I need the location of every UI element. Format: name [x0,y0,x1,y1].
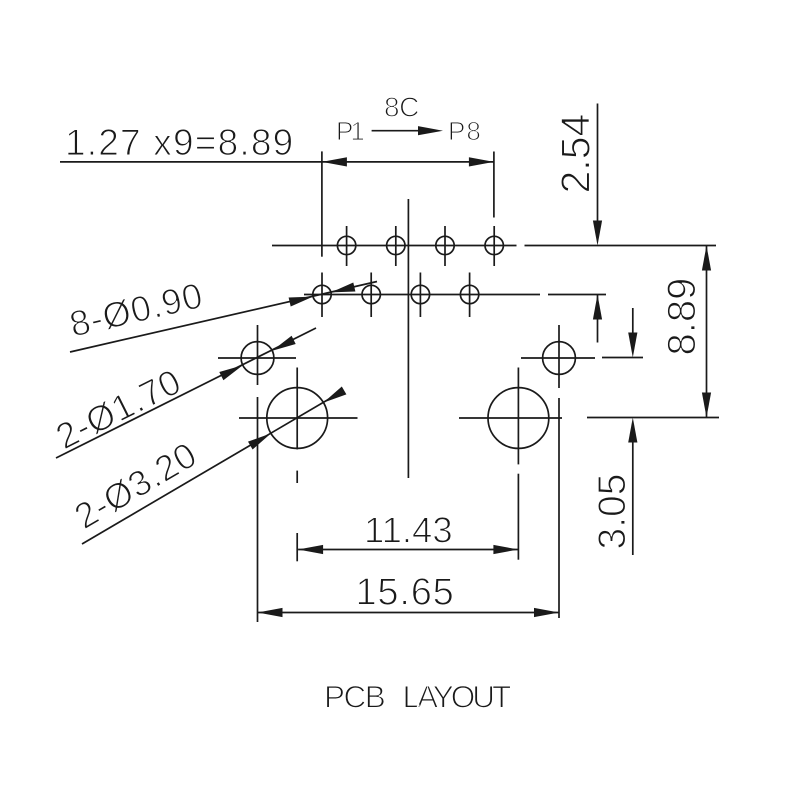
big hole right (3.20) [488,388,549,449]
pin P5 [411,285,429,303]
pin P3 [362,285,380,303]
pin P1 [313,285,331,303]
svg-text:LAYOUT: LAYOUT [403,679,511,715]
arrow left of dim 1.27x9 [322,157,347,166]
svg-text:3.05: 3.05 [591,474,634,550]
big hole left (3.20) [267,388,328,449]
mid hole left extension down [257,397,259,622]
dimension 8.89 right dim line [706,246,708,418]
dimension 3.05 upper segment [632,308,634,344]
leader 2-dia3.20 [82,392,341,544]
mid hole right extension down [558,398,560,618]
dimension 15.65 dim line [258,612,560,614]
big hole row extension line [587,417,719,419]
extension line P8 column [493,152,495,218]
mid hole left (1.70) [241,342,274,375]
pin row 2 line [304,294,540,296]
leader 2-dia1.70 [56,328,316,458]
dimension 2.54 lower arrow and tail [597,295,599,343]
svg-text:P8: P8 [448,116,482,146]
leader 8-dia0.90 [70,282,377,353]
central vertical centerline [407,199,409,478]
pin row 2 extension to 2.54 dim [548,294,606,296]
svg-text:1.27 x9=8.89: 1.27 x9=8.89 [65,122,294,163]
mid hole right (1.70) [543,342,576,375]
P1 to P8 direction arrow line [372,130,425,132]
svg-text:8C: 8C [384,92,419,123]
pin P4 [387,236,405,254]
dimension 3.05 lower segment [632,431,634,555]
svg-text:P1: P1 [336,116,364,146]
pin P7 [460,285,478,303]
dimension 1.27x9=8.89 dim line [60,161,494,163]
extension line P1 column [321,151,323,256]
svg-text:15.65: 15.65 [356,572,455,614]
mid row extension dash at 3.05 [602,357,643,359]
svg-text:2.54: 2.54 [553,114,599,194]
pin P8 [485,236,503,254]
svg-text:PCB: PCB [324,679,385,715]
pin row 1 line [272,245,517,247]
pin P2 [337,236,355,254]
svg-text:8.89: 8.89 [660,278,704,356]
arrow right of dim 1.27x9 [469,157,494,166]
dimension 11.43 dim line [298,549,518,551]
pin row 1 extension to 8.89 dim [525,245,717,247]
pin P6 [436,236,454,254]
svg-text:11.43: 11.43 [364,510,453,551]
dimension 2.54 upper line [597,104,599,233]
